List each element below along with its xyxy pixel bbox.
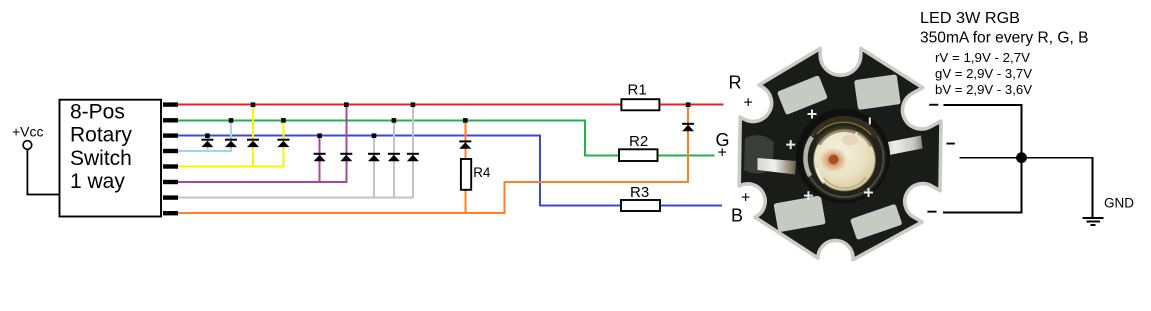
pin 3 [163, 133, 178, 137]
diode D11 orange-red [682, 123, 694, 131]
pin 8 [163, 211, 178, 215]
node green-yellow [281, 118, 286, 123]
wire G minus [960, 157, 1022, 159]
svg-text:R2: R2 [629, 133, 648, 150]
diode D10 orange-green above R4 [459, 140, 471, 148]
svg-text:+Vcc: +Vcc [12, 123, 44, 139]
diode D7 gray-blue [368, 153, 380, 161]
silkscreen plus marks [786, 110, 873, 201]
resistor R1 [621, 99, 659, 110]
resistor R2 [619, 149, 658, 161]
diode D1 cyan-blue [201, 139, 213, 147]
svg-text:Rotary: Rotary [70, 124, 132, 147]
pad upper-left [777, 75, 828, 115]
svg-text:+: + [741, 190, 750, 207]
pad lower-right [850, 204, 903, 240]
switch S1 box [60, 100, 162, 217]
svg-text:R1: R1 [628, 81, 647, 98]
svg-text:Switch: Switch [70, 147, 132, 170]
wire green bus [178, 119, 586, 121]
svg-text:gV = 2,9V - 3,7V: gV = 2,9V - 3,7V [935, 66, 1032, 81]
board reflection patch [744, 135, 774, 173]
svg-text:bV = 2,9V - 3,6V: bV = 2,9V - 3,6V [935, 82, 1032, 97]
wire Vcc vertical [27, 149, 29, 195]
svg-text:R4: R4 [473, 165, 491, 180]
svg-text:B: B [731, 206, 743, 226]
wire purple stub to D5 blue [319, 136, 321, 182]
pin 1 [163, 102, 178, 106]
LED emitter metal ring [803, 116, 887, 200]
pad lower-left [773, 195, 825, 232]
minus label B [927, 211, 936, 213]
wire orange to D11 red node [687, 105, 689, 182]
svg-text:8-Pos: 8-Pos [70, 101, 125, 124]
svg-text:LED 3W RGB: LED 3W RGB [920, 10, 1020, 27]
wire R minus [944, 104, 1022, 106]
pin 7 [163, 195, 178, 199]
node blue-gray [372, 133, 377, 138]
resistor R3 [621, 200, 660, 211]
LED dome [814, 129, 876, 191]
wire blue to R3 and B terminal [539, 204, 722, 206]
wire Vcc horizontal [27, 194, 60, 196]
wire junction to GND [1022, 157, 1094, 159]
pin 6 [163, 180, 178, 184]
LED star PCB photo [739, 48, 941, 259]
pin 4 [163, 149, 178, 153]
node red-gray [411, 102, 416, 107]
wire gray position 7 [178, 197, 414, 199]
wire green vertical drop [584, 119, 586, 155]
svg-text:1 way: 1 way [70, 170, 125, 193]
LED emitter housing [796, 109, 890, 203]
node blue-purple [317, 133, 322, 138]
wire GND vertical [1092, 157, 1094, 217]
node blue-cyan [205, 133, 210, 138]
wire yellow stub to D3 red [252, 105, 254, 167]
diode D3 yellow-red [247, 139, 259, 147]
svg-text:GND: GND [1104, 195, 1134, 210]
board outline [739, 48, 941, 259]
wire purple position 6 [178, 181, 347, 183]
wire B minus [943, 212, 1022, 214]
ground symbol [1082, 217, 1103, 226]
wire yellow position 5 [178, 166, 284, 168]
wire blue bus [178, 135, 541, 137]
node green-gray [392, 118, 397, 123]
node red-purple [344, 102, 349, 107]
wire red bus [178, 104, 724, 106]
node red-orange after R1 [686, 102, 691, 107]
svg-text:R: R [729, 72, 742, 92]
wire common vertical [1021, 104, 1023, 213]
resistor R4 [461, 159, 471, 190]
svg-text:+: + [744, 95, 753, 112]
pin 5 [163, 164, 178, 168]
svg-text:R3: R3 [630, 184, 649, 201]
node green-orange R4 [463, 118, 468, 123]
LED lead right [880, 136, 923, 157]
node common junction [1016, 152, 1027, 163]
svg-text:350mA for every R, G, B: 350mA for every R, G, B [920, 29, 1089, 46]
wire cyan position 4 [178, 150, 232, 152]
+Vcc terminal [23, 141, 32, 150]
wire gray stub to D7 blue [373, 136, 375, 197]
diode D2 cyan-green [225, 139, 237, 147]
wire gray stub to D8 green [393, 121, 395, 198]
minus label R [929, 104, 938, 106]
node red-yellow [251, 102, 256, 107]
wire purple riser to D6 red [345, 105, 347, 182]
svg-text:+: + [718, 145, 727, 162]
diode D5 purple-blue [314, 153, 326, 161]
LED lead left [758, 158, 797, 175]
wire green to R2 and G terminal [584, 154, 715, 156]
wire cyan riser to D2 green [230, 121, 232, 152]
node green-cyan [229, 118, 234, 123]
wire orange riser [503, 181, 505, 213]
wire cyan stub to D1 [206, 136, 208, 151]
wire orange position 8 [178, 212, 505, 214]
minus label G [947, 143, 955, 145]
wire orange branch to R4 [464, 121, 466, 213]
svg-text:rV = 1,9V - 2,7V: rV = 1,9V - 2,7V [935, 50, 1030, 65]
wire gray riser to D9 red [412, 105, 414, 197]
diode D6 purple-red [340, 153, 352, 161]
diode D8 gray-green [388, 153, 400, 161]
pin 2 [163, 118, 178, 122]
diode D4 yellow-green [277, 139, 289, 147]
wire orange horizontal run [503, 181, 689, 183]
wire yellow riser to D4 green [282, 121, 284, 167]
wire blue vertical drop [539, 135, 541, 206]
pad upper-right [854, 74, 901, 110]
diode D9 gray-red [407, 153, 419, 161]
